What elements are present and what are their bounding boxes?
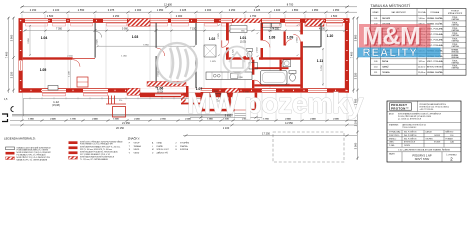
svg-text:1 950: 1 950	[28, 119, 34, 121]
svg-text:1.05: 1.05	[40, 68, 47, 72]
svg-text:STAVEBNÍK:: STAVEBNÍK:	[389, 123, 399, 126]
svg-text:POROTHERM TI 24, P+D, PŘEKLADY: POROTHERM TI 24, P+D, PŘEKLADY KP7	[80, 143, 113, 146]
svg-text:VYPRACOVAL:: VYPRACOVAL:	[389, 131, 401, 134]
left wall door opening	[19, 61, 22, 71]
svg-text:1.04: 1.04	[41, 36, 48, 40]
wc	[289, 71, 296, 74]
svg-text:1 500: 1 500	[47, 14, 54, 18]
svg-text:NÁZ. MÍSTNOSTI: NÁZ. MÍSTNOSTI	[392, 11, 407, 14]
legend swatch row 2	[6, 152, 15, 155]
red interior wall hall bottom	[229, 57, 253, 59]
porch washer fixtures	[213, 94, 221, 102]
svg-text:1 150: 1 150	[243, 91, 249, 93]
wall texture dashes	[20, 20, 349, 92]
svg-text:BYSTROČICE: BYSTROČICE	[404, 141, 416, 144]
svg-text:22,50 m²: 22,50 m²	[418, 66, 426, 69]
svg-text:OMÍTKA: OMÍTKA	[451, 61, 459, 64]
bathtub	[261, 71, 288, 85]
svg-text:1 625: 1 625	[210, 61, 216, 63]
pillar hatch bottom	[127, 88, 140, 95]
svg-text:OMÍTKA: OMÍTKA	[451, 67, 459, 70]
hatched wall 1.06	[147, 82, 186, 87]
svg-text:2 325: 2 325	[254, 8, 261, 12]
bench 1.05	[48, 86, 58, 91]
svg-text:5 950: 5 950	[122, 28, 129, 31]
svg-text:ING. P. KVĚTOň: ING. P. KVĚTOň	[404, 137, 416, 140]
watermark circle emblem 1	[157, 43, 197, 83]
basin	[249, 63, 258, 70]
exterior stair red	[106, 96, 126, 118]
svg-text:TERASA: TERASA	[134, 145, 142, 148]
table header text	[372, 11, 463, 15]
svg-text:ZODP. PROJ.:: ZODP. PROJ.:	[389, 135, 400, 137]
svg-text:3 650: 3 650	[28, 37, 30, 43]
red interior wall 1.09|1.08	[284, 32, 286, 46]
title block	[387, 101, 461, 162]
svg-text:OMÍTKA: OMÍTKA	[451, 40, 459, 43]
svg-text:2 550: 2 550	[78, 8, 85, 12]
chimney hatch left	[128, 19, 150, 27]
red interior wall right block	[300, 23, 303, 35]
svg-text:2023/14: 2023/14	[404, 145, 410, 147]
svg-text:1.11: 1.11	[374, 72, 378, 74]
bottom wall openings	[42, 89, 276, 92]
left dimension chains	[9, 17, 14, 93]
svg-text:PLOCHA: PLOCHA	[418, 11, 426, 14]
partition wall 1.04|1.03	[95, 23, 96, 58]
interior dimension chain	[24, 30, 344, 32]
svg-text:OMÍTKA: OMÍTKA	[451, 29, 459, 32]
svg-text:1 850: 1 850	[292, 8, 299, 12]
svg-text:1 950: 1 950	[312, 8, 319, 12]
svg-text:(3,00): (3,00)	[157, 90, 163, 93]
svg-text:1 500: 1 500	[331, 14, 338, 18]
svg-text:3 250: 3 250	[10, 71, 14, 78]
top dimension chains	[21, 7, 357, 12]
svg-text:1 525: 1 525	[233, 48, 235, 54]
M&M logo blue band REALITY	[358, 48, 441, 58]
svg-text:OMÍTKA: OMÍTKA	[451, 34, 459, 37]
table verticals	[381, 9, 443, 76]
svg-text:ZAŘIZOV. PŘ.: ZAŘIZOV. PŘ.	[157, 151, 169, 154]
top dimension ticks	[20, 6, 349, 9]
svg-text:5 750: 5 750	[321, 64, 323, 70]
partition wall 1.03|1.05	[156, 23, 157, 48]
interior mini dimension texts	[67, 31, 298, 94]
door arc 1.09	[263, 40, 270, 47]
bottom wall	[19, 88, 350, 92]
svg-text:5,60 m²: 5,60 m²	[419, 17, 426, 20]
svg-text:2 325: 2 325	[180, 8, 187, 12]
svg-text:2 000: 2 000	[135, 8, 142, 12]
svg-text:PRAČKA: PRAČKA	[180, 145, 188, 148]
svg-text:2xA4: 2xA4	[450, 141, 454, 144]
right dimension chains	[354, 17, 358, 160]
svg-text:DATUM:: DATUM:	[426, 131, 433, 134]
watermark circle emblem 2 (house)	[224, 47, 251, 74]
svg-text:21 350: 21 350	[122, 121, 130, 125]
svg-text:2 400: 2 400	[50, 118, 56, 121]
svg-text:Č.ZAK.:: Č.ZAK.:	[389, 144, 395, 147]
svg-text:1.09: 1.09	[374, 61, 378, 63]
interior extension lines	[45, 23, 326, 88]
svg-text:3 900: 3 900	[10, 34, 14, 41]
svg-text:TL. 12,5 mm, VČ. OMÍTEK A MALE: TL. 12,5 mm, VČ. OMÍTEK A MALEB	[80, 158, 109, 161]
terrace dashed	[273, 132, 344, 162]
svg-text:1 900: 1 900	[113, 119, 119, 121]
svg-text:3 425: 3 425	[97, 38, 99, 44]
svg-text:1.01: 1.01	[240, 36, 247, 40]
rear alcove walls	[181, 94, 201, 96]
svg-text:1:50: 1:50	[450, 135, 453, 137]
svg-text:8 700: 8 700	[287, 3, 294, 7]
garage window bottom wall	[308, 89, 327, 92]
svg-text:1 700: 1 700	[70, 119, 76, 121]
svg-text:2 650: 2 650	[297, 36, 299, 42]
svg-text:OBKLAD: OBKLAD	[451, 51, 459, 54]
interior chain 1.04	[29, 25, 31, 56]
svg-text:2 000: 2 000	[176, 14, 183, 18]
room table TABULKA MISTNOSTI	[371, 4, 467, 75]
svg-text:1 400: 1 400	[274, 8, 281, 12]
shelf 1.09	[262, 23, 272, 27]
svg-text:OKNA: OKNA	[157, 142, 163, 145]
svg-text:1.10: 1.10	[374, 67, 378, 69]
room labels	[40, 34, 334, 91]
svg-text:2 625: 2 625	[218, 32, 220, 38]
svg-text:REALITY: REALITY	[363, 47, 418, 59]
bath divider wall	[255, 67, 289, 69]
svg-text:FORMÁT:: FORMÁT:	[446, 137, 454, 140]
legend znacky	[128, 136, 190, 155]
svg-text:STUDIE: STUDIE	[434, 142, 441, 144]
svg-text:L: L	[152, 146, 153, 148]
red interior wall 1.01|1.09	[261, 23, 264, 41]
door arc 1.10	[293, 34, 300, 41]
svg-text:(2,05): (2,05)	[240, 40, 246, 43]
red interior wall hall left	[226, 23, 229, 41]
chimney hatch right	[305, 19, 324, 26]
svg-text:12 400: 12 400	[164, 3, 172, 7]
table rows text	[374, 16, 460, 74]
legend swatch row 1	[6, 147, 15, 150]
door arc 1.08	[286, 40, 292, 46]
svg-text:STĚN A STROPŮ: STĚN A STROPŮ	[448, 12, 463, 15]
svg-text:1.10: 1.10	[327, 34, 334, 38]
svg-text:MĚŘÍTKO:: MĚŘÍTKO:	[446, 131, 455, 134]
wc 1.01	[247, 49, 253, 52]
svg-text:p.č. 123/45 k.ú. BYSTROČICE: p.č. 123/45 k.ú. BYSTROČICE	[398, 117, 422, 120]
svg-text:2 250: 2 250	[229, 8, 236, 12]
lower wall section 1.06	[140, 93, 233, 98]
kitchen island red	[77, 77, 88, 87]
legend swatch row 3	[6, 157, 15, 160]
washer	[283, 60, 291, 67]
right wall	[345, 18, 349, 92]
svg-text:1.11: 1.11	[317, 59, 324, 63]
svg-text:4 250: 4 250	[319, 28, 326, 31]
svg-text:PONECHANÉ BEZE ZMĚN, VČ. OMÍTE: PONECHANÉ BEZE ZMĚN, VČ. OMÍTEK	[17, 148, 49, 151]
svg-text:PROTON™: PROTON™	[391, 107, 409, 111]
extra bottom chains	[183, 117, 357, 135]
legend materials	[4, 136, 123, 162]
legend col2 row 3	[69, 151, 78, 154]
svg-text:1:50 + ARCHITEKTONICKÁ STUDI: 1:50 + ARCHITEKTONICKÁ STUDIE STAVEB. ŘE…	[398, 148, 450, 151]
svg-text:2 100: 2 100	[53, 8, 60, 12]
svg-text:1 950: 1 950	[157, 8, 164, 12]
svg-text:KERAM. DLAŽBA: KERAM. DLAŽBA	[427, 17, 443, 20]
svg-text:1 100: 1 100	[223, 126, 230, 130]
room label 1.12	[52, 100, 60, 107]
svg-text:5 950: 5 950	[143, 44, 149, 46]
svg-text:VSTUP: VSTUP	[134, 143, 141, 145]
top wall window openings	[22, 14, 347, 23]
svg-text:SPRCH. KOUT: SPRCH. KOUT	[157, 149, 170, 151]
svg-text:VINYL. PODLAHA: VINYL. PODLAHA	[427, 60, 443, 63]
garage interior dim	[322, 48, 324, 86]
svg-text:2 250: 2 250	[113, 14, 120, 18]
svg-text:XPS TL. 100 mm, SOKL EPS, TL.: XPS TL. 100 mm, SOKL EPS, TL. 100 mm	[80, 149, 113, 151]
svg-text:GARÁŽ: GARÁŽ	[382, 66, 389, 69]
svg-text:LEGENDA MATERIÁLŮ:: LEGENDA MATERIÁLŮ:	[4, 136, 36, 141]
svg-text:AKCE:: AKCE:	[389, 112, 395, 115]
svg-text:ING. P. KVĚTOň: ING. P. KVĚTOň	[404, 131, 416, 134]
svg-text:20 150: 20 150	[116, 126, 124, 130]
svg-text:KRESLIL:: KRESLIL:	[389, 138, 397, 140]
red interior wall 1.05 top	[23, 57, 73, 59]
red interior wall bath left	[252, 60, 254, 75]
window sill niches	[26, 23, 343, 26]
svg-text:1.03: 1.03	[132, 35, 139, 39]
svg-text:TABULKA MÍSTNOSTÍ: TABULKA MÍSTNOSTÍ	[371, 4, 411, 8]
svg-text:ŠATNA: ŠATNA	[382, 60, 389, 63]
svg-text:ZNAČKY:: ZNAČKY:	[128, 136, 141, 141]
svg-text:+420 777 123 456: +420 777 123 456	[420, 109, 434, 111]
svg-text:1.08: 1.08	[269, 36, 276, 40]
svg-text:1.02: 1.02	[209, 37, 216, 41]
legend col2 row 2	[69, 146, 78, 149]
door arc 1.04|1.03	[96, 32, 102, 38]
wardrobe 1.01	[230, 26, 247, 33]
svg-text:BETON. STRONG: BETON. STRONG	[427, 67, 443, 69]
svg-text:1.01: 1.01	[374, 18, 378, 20]
svg-text:15,08 m²: 15,08 m²	[418, 71, 426, 74]
top dimension numbers	[30, 3, 340, 18]
kitchen counter	[206, 72, 252, 80]
svg-text:7 400: 7 400	[350, 51, 354, 58]
svg-text:779 00 OLOMOUC: 779 00 OLOMOUC	[402, 127, 417, 129]
svg-text:1 230: 1 230	[69, 70, 71, 76]
svg-text:1 050: 1 050	[121, 56, 127, 58]
svg-text:OBKLAD: OBKLAD	[451, 56, 459, 59]
legend col2 row 1	[69, 141, 78, 144]
svg-text:TERASA: TERASA	[382, 71, 390, 74]
svg-text:3 350: 3 350	[354, 72, 358, 79]
svg-text:2 250: 2 250	[134, 119, 140, 121]
interior chain 1.05	[70, 60, 72, 88]
svg-text:1 950: 1 950	[333, 8, 340, 12]
svg-text:1 780: 1 780	[237, 77, 243, 79]
red pillar 1.07	[186, 86, 189, 93]
entry porch protrusion	[201, 93, 204, 112]
door arc 1.05	[73, 60, 80, 67]
svg-text:OMÍTKA: OMÍTKA	[451, 23, 459, 26]
svg-text:ZÁDVEŘÍ: ZÁDVEŘÍ	[382, 17, 391, 20]
door arc hall	[222, 40, 229, 47]
left wall	[19, 18, 23, 92]
strip tick marks	[30, 97, 186, 99]
extension lines below building	[202, 93, 348, 120]
porch steps	[235, 113, 247, 115]
door arc wc	[282, 59, 288, 65]
svg-text:7 050: 7 050	[56, 28, 63, 31]
svg-text:VJEZD: VJEZD	[134, 152, 140, 154]
svg-text:1.09: 1.09	[287, 35, 294, 39]
partition wall 1.03|1.02	[196, 23, 197, 45]
svg-text:2 150: 2 150	[67, 56, 73, 58]
svg-text:2 150: 2 150	[257, 46, 259, 52]
svg-text:NA MALTU VPC, VČ. OMÍTEK A MAL: NA MALTU VPC, VČ. OMÍTEK A MALEB	[17, 158, 48, 161]
partition right room	[321, 23, 322, 47]
svg-text:2 300: 2 300	[205, 8, 212, 12]
svg-text:2 750: 2 750	[160, 119, 166, 121]
bottom dimension chains	[10, 121, 357, 126]
svg-text:1 750: 1 750	[250, 14, 257, 18]
svg-text:KERAM. DLAŽBA: KERAM. DLAŽBA	[427, 71, 443, 74]
porch divider wall	[229, 93, 231, 109]
table horizontals	[371, 16, 467, 70]
svg-text:SUŠIČKA: SUŠIČKA	[180, 148, 189, 151]
interior mini ticks	[218, 25, 299, 58]
bottom wall sill niches	[43, 93, 108, 96]
svg-text:NÁZEV:: NÁZEV:	[389, 153, 396, 156]
door mark red	[244, 56, 247, 59]
svg-text:(15,08): (15,08)	[52, 104, 60, 107]
red interior wall bath/wc	[280, 60, 282, 71]
svg-text:OBEC:: OBEC:	[389, 142, 395, 144]
svg-text:VYTÁPĚNÍ: VYTÁPĚNÍ	[180, 142, 189, 145]
svg-text:2%: 2%	[119, 100, 122, 102]
open section 1.06	[140, 88, 201, 93]
svg-text:VIZ. VÝKRES SKLADEB Č. P101, V: VIZ. VÝKRES SKLADEB Č. P101, V. 02	[80, 153, 110, 156]
svg-text:SJEZD: SJEZD	[134, 149, 140, 151]
svg-text:OZNAČ.: OZNAČ.	[372, 11, 379, 14]
svg-text:PODLAHA: PODLAHA	[431, 11, 440, 14]
shower 1.02	[204, 45, 216, 57]
svg-text:3 800: 3 800	[354, 34, 358, 41]
svg-text:DVEŘE: DVEŘE	[157, 145, 164, 148]
door arc 1.03	[157, 48, 165, 56]
svg-text:10/2023: 10/2023	[434, 135, 440, 137]
svg-text:ING. P. KVĚTOň: ING. P. KVĚTOň	[404, 134, 416, 137]
legend col2 row 4	[69, 156, 78, 159]
door arc bath	[254, 80, 261, 87]
svg-text:STUPEŇ:: STUPEŇ:	[426, 137, 434, 140]
in-wall hatch band	[233, 19, 261, 23]
svg-text:NOVÝ STAV: NOVÝ STAV	[415, 157, 430, 161]
svg-text:OMÍTKA: OMÍTKA	[451, 18, 459, 21]
interior chain 2	[97, 45, 195, 47]
svg-text:P10 NA MALTU VPC, VČ. PŘEKLADŮ: P10 NA MALTU VPC, VČ. PŘEKLADŮ	[17, 153, 47, 156]
svg-text:11 550: 11 550	[285, 121, 293, 125]
svg-text:3 000: 3 000	[354, 142, 358, 149]
svg-text:OMÍTKA: OMÍTKA	[451, 45, 459, 48]
terrace strip 1.12	[24, 98, 201, 116]
building top wall	[19, 18, 350, 23]
svg-text:2 150: 2 150	[30, 8, 37, 12]
svg-text:4 550: 4 550	[273, 28, 280, 31]
svg-text:17 250: 17 250	[262, 132, 270, 136]
svg-text:3 075: 3 075	[108, 8, 115, 12]
svg-text:2 450: 2 450	[92, 118, 98, 121]
svg-text:7 400: 7 400	[5, 51, 9, 58]
svg-text:3 150: 3 150	[158, 70, 160, 76]
title block logo	[390, 103, 412, 110]
svg-text:3,35 m²: 3,35 m²	[419, 60, 426, 63]
wall extension lines above	[22, 14, 347, 18]
M&M logo red square	[358, 22, 441, 59]
section mark left	[2, 114, 8, 122]
